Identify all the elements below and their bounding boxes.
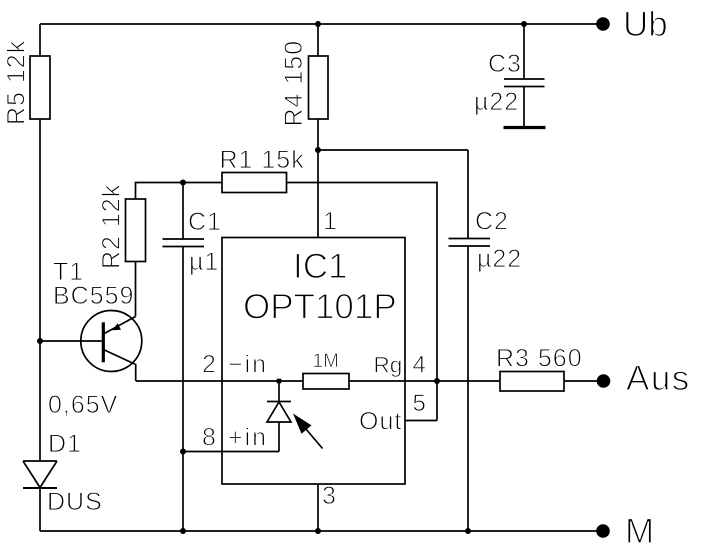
svg-text:2: 2 (202, 351, 217, 379)
junction dot rail at pin3 (315, 528, 321, 534)
wire C2 top lead (467, 150, 469, 239)
terminal M (596, 524, 610, 538)
wire T1 collector to -in pin 2 net (136, 380, 303, 382)
svg-text:R3 560: R3 560 (496, 345, 583, 373)
svg-text:+in: +in (228, 424, 268, 452)
wire bottom ground rail M net (40, 530, 603, 532)
junction dot node R4 top (315, 21, 321, 27)
svg-text:DUS: DUS (47, 488, 103, 516)
transistor T1 (81, 311, 142, 382)
wire R5 top lead (39, 24, 41, 56)
light arrow (293, 414, 323, 449)
wire node to C2 horizontal (318, 149, 468, 151)
terminal Ub (596, 17, 610, 31)
svg-text:Aus: Aus (626, 359, 691, 398)
wire node to R1 left (183, 182, 222, 184)
wire R4 top lead (317, 24, 319, 56)
svg-text:1: 1 (323, 208, 338, 236)
svg-text:C3: C3 (488, 50, 522, 78)
diode D1 (23, 461, 57, 488)
op-amp IC1 OPT101P box (222, 238, 405, 485)
junction square photodiode node (277, 379, 282, 384)
svg-text:Rg: Rg (374, 353, 403, 378)
svg-text:µ22: µ22 (474, 88, 519, 116)
junction dot node R1/R2/C1 (180, 180, 186, 186)
resistor R4 (309, 56, 329, 119)
photodiode bottom lead (278, 422, 280, 452)
wire R5 bottom to T1 base node (39, 119, 41, 341)
svg-text:µ22: µ22 (477, 245, 522, 273)
svg-text:OPT101P: OPT101P (243, 288, 397, 327)
junction dot T1 base node (37, 338, 43, 344)
resistor 1M internal (303, 374, 349, 390)
wire pin 5 Out to output node (405, 420, 437, 422)
junction dot output node (434, 378, 440, 384)
wire R1 right to output node (287, 183, 438, 421)
wire C3 bottom lead (523, 87, 525, 127)
wire top supply rail Ub net (40, 23, 603, 25)
wire C2 bottom lead to ground rail (467, 246, 469, 531)
svg-text:1M: 1M (313, 351, 339, 372)
svg-text:4: 4 (413, 352, 426, 379)
wire R3 right to Aus (564, 380, 597, 382)
wire R4 bottom lead (317, 119, 319, 150)
svg-text:R2 12k: R2 12k (98, 184, 126, 269)
junction dot rail at C2 net (465, 528, 471, 534)
resistor R1 (222, 173, 287, 193)
resistor R2 (126, 199, 146, 262)
wire 1M right to pin 4 and R3 (349, 380, 500, 382)
junction dot node pin1/R4/C2 (315, 147, 321, 153)
junction dot rail at C1 net (180, 528, 186, 534)
wire +in pin 8 (183, 451, 279, 453)
capacitor C3 (504, 79, 545, 87)
capacitor C1 (163, 239, 205, 247)
svg-text:M: M (625, 512, 654, 548)
junction dot node C3 top (521, 21, 527, 27)
terminal Aus (597, 374, 611, 388)
photodiode D (internal) (267, 402, 291, 423)
resistor R3 (500, 372, 564, 392)
svg-text:D1: D1 (48, 430, 82, 458)
wire node to R2 top (136, 183, 184, 200)
wire C1 top lead (182, 183, 184, 240)
svg-text:Out: Out (359, 408, 402, 436)
svg-text:R1 15k: R1 15k (220, 146, 305, 174)
svg-text:8: 8 (202, 424, 217, 452)
wire pin 3 to ground rail (317, 484, 319, 531)
svg-text:3: 3 (322, 482, 337, 510)
wire R2 bottom to T1 emitter (135, 262, 137, 317)
junction dot +in node (180, 449, 186, 455)
wire T1 base lead (40, 340, 102, 342)
wire D1 bottom lead (39, 488, 41, 531)
svg-text:R4 150: R4 150 (280, 40, 308, 127)
svg-text:0,65V: 0,65V (48, 391, 118, 419)
svg-text:Ub: Ub (623, 5, 668, 44)
svg-text:5: 5 (413, 390, 426, 417)
svg-text:−in: −in (228, 351, 268, 379)
ground bar below C3 (504, 126, 546, 129)
photodiode top lead (278, 381, 280, 402)
svg-text:C1: C1 (188, 208, 222, 236)
wire pin 1 lead into IC (317, 150, 319, 238)
svg-text:BC559: BC559 (53, 282, 134, 310)
resistor R5 (30, 56, 50, 119)
wire C1 bottom lead down to ground rail (182, 247, 184, 532)
svg-text:µ1: µ1 (189, 248, 219, 276)
svg-text:IC1: IC1 (293, 247, 347, 286)
capacitor C2 (449, 239, 491, 247)
svg-text:C2: C2 (475, 208, 509, 236)
svg-text:R5 12k: R5 12k (3, 40, 31, 125)
wire base node down to D1 (39, 341, 41, 461)
wire C3 top lead (523, 24, 525, 79)
